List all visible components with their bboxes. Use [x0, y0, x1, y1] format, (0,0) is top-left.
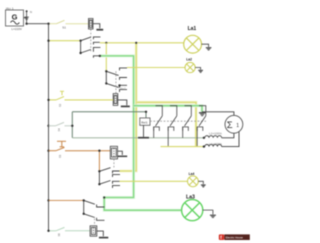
ground (relay top) — [93, 24, 103, 30]
svg-text:N: N — [30, 10, 32, 14]
switch S3 — [56, 147, 65, 150]
svg-text:Rel1: Rel1 — [141, 120, 148, 124]
lamp La2 — [185, 62, 195, 72]
switch S6 — [56, 227, 65, 230]
svg-text:L1=100%: L1=100% — [209, 142, 222, 146]
svg-text:Σ: Σ — [227, 120, 233, 131]
svg-text:S3: S3 — [58, 154, 62, 158]
relay coil K (top) — [89, 19, 94, 30]
wire yellow drop to K2 — [105, 43, 107, 72]
node to K2 pivots — [105, 42, 107, 44]
ground La2 — [195, 68, 203, 73]
wire yellow to lamp La1 — [100, 42, 184, 44]
switch S4 — [56, 122, 65, 125]
relay coil Rel2 — [113, 94, 118, 106]
contact Rel1 c3 — [183, 106, 192, 138]
bus1 vertical — [48, 24, 50, 231]
node yellow drop right — [135, 42, 137, 44]
svg-text:Electric House: Electric House — [226, 235, 244, 239]
dashed link relay K to contacts K1 — [90, 29, 92, 51]
node green corner — [103, 196, 105, 198]
contact K2 changeover — [106, 68, 127, 92]
meter W1 — [225, 115, 243, 133]
contact K1 changeover — [81, 37, 101, 58]
switch S1 — [57, 20, 65, 23]
wire orange bottom net — [47, 199, 49, 201]
relay Rel1 — [140, 118, 150, 125]
dashed link K4 — [94, 219, 96, 226]
svg-text:La1: La1 — [188, 26, 197, 32]
contact K3 changeover — [99, 168, 120, 188]
lamp La3 — [182, 200, 203, 221]
svg-text:S2: S2 — [58, 103, 62, 107]
svg-text:La4: La4 — [189, 172, 195, 176]
lamp La1 — [184, 35, 202, 53]
svg-text:S4: S4 — [57, 128, 61, 132]
wire green K1 to La3 (main) — [100, 56, 182, 210]
relay coil Rel4 — [90, 226, 97, 236]
wire orange S3 net — [47, 150, 49, 152]
generator G1 — [6, 10, 24, 26]
svg-text:Ист 1: Ист 1 — [6, 6, 14, 10]
dashed link K2 — [115, 71, 117, 93]
contact K4 changeover — [84, 200, 105, 220]
svg-text:S6: S6 — [57, 233, 61, 237]
earth Rel1 — [138, 125, 149, 137]
ground Rel4 — [97, 231, 109, 238]
switch S2 — [56, 91, 64, 100]
svg-text:L2=100%: L2=100% — [209, 132, 222, 136]
dashed link Rel3 contacts — [113, 159, 115, 169]
junction bus1 top — [47, 23, 49, 25]
wire meter top — [202, 112, 234, 116]
contact Rel1 c1 — [154, 106, 163, 138]
wire yellow bus1 to K1 pivots — [49, 40, 81, 42]
ground Rel2 — [118, 100, 130, 107]
svg-text:1: 1 — [236, 123, 239, 129]
svg-text:S1: S1 — [62, 26, 66, 30]
watermark logo — [219, 234, 225, 240]
ground meter — [199, 113, 205, 116]
svg-text:L=220V: L=220V — [12, 27, 22, 31]
wire top feed — [27, 23, 49, 25]
svg-text:La3: La3 — [186, 194, 195, 200]
svg-text:Рел2: Рел2 — [120, 88, 126, 91]
wire yellow drop to K3 terminal — [120, 43, 137, 171]
lamp La4 — [188, 176, 199, 187]
svg-text:G: G — [12, 12, 18, 21]
dashed link Rel1 contacts — [150, 120, 206, 122]
wire yellow to La2 — [127, 67, 185, 69]
ground La4 — [198, 181, 205, 187]
wire yellow to La4 — [120, 180, 188, 182]
wire bus1 to Rel4 — [49, 230, 91, 232]
contact Rel1 c2 — [168, 106, 177, 147]
wire yellow S2 to Rel2 — [49, 99, 57, 101]
node N1 — [24, 12, 29, 24]
svg-text:La2: La2 — [186, 57, 192, 61]
wire green bus to L2 — [72, 137, 204, 139]
relay coil Rel3 — [110, 146, 117, 159]
wire pale S4 net — [47, 125, 49, 127]
ground La3 — [203, 210, 216, 218]
wire yellow bus bottom — [161, 146, 204, 148]
wire green branch to meter — [134, 106, 202, 112]
contact Rel1 c4 — [197, 106, 206, 147]
inductor L1 — [203, 145, 205, 147]
ground La1 — [202, 44, 212, 50]
wire yellow branch to L1 — [136, 102, 196, 146]
inductor L2 — [203, 137, 205, 139]
ground Rel3 — [118, 151, 128, 156]
